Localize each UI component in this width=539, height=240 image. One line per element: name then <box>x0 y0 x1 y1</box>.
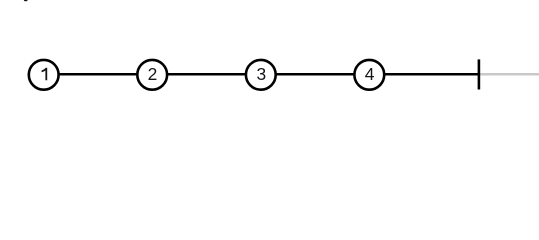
node 4 circle <box>354 60 384 90</box>
node 1 circle <box>29 60 59 90</box>
wire: main segment (black) from node 1 through node 4 to end tick <box>44 73 479 76</box>
node 2 circle <box>137 60 167 90</box>
cut-off glyph fragment (top-left, clipped by image edge) <box>24 0 28 1</box>
svg-text:3: 3 <box>256 64 266 84</box>
node 1 label "1" <box>42 68 48 81</box>
svg-text:4: 4 <box>365 64 375 84</box>
node 3 circle <box>246 60 276 90</box>
wire: remaining segment (gray) from end tick to right edge <box>479 73 539 76</box>
end tick bar (vertical terminator) <box>478 59 481 89</box>
svg-text:2: 2 <box>148 64 158 84</box>
